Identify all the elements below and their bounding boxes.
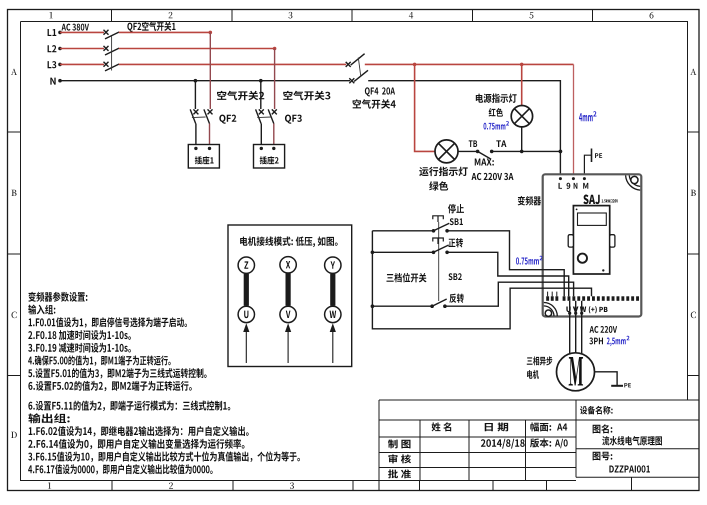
motor terminal wiring box xyxy=(228,225,352,367)
wire L2 to socket branch junction xyxy=(119,48,275,50)
breaker QF4 linkage xyxy=(358,58,361,77)
ground PE motor xyxy=(611,385,623,387)
wire QF3 pole B to socket2 xyxy=(260,124,262,145)
breaker QF2 pole L3 xyxy=(104,62,109,67)
wire forward output to inverter xyxy=(447,252,569,296)
contact SB1 stop xyxy=(432,229,436,233)
wire N drop to QF2 xyxy=(194,81,196,109)
wire inverter V to motor xyxy=(574,312,577,315)
node TB xyxy=(469,140,477,147)
lamp HL1 power indicator (red) xyxy=(511,106,532,127)
inverter terminal strip xyxy=(546,296,549,301)
label power indicator xyxy=(476,94,517,103)
breaker QF4 pole N xyxy=(349,78,354,83)
pushbutton SB1 actuator cap xyxy=(433,216,444,222)
wire N bus xyxy=(60,80,350,82)
wire common rail to inverter COM xyxy=(372,231,591,329)
wire forward left to common rail xyxy=(372,251,433,253)
label QF3 xyxy=(285,115,302,124)
label MAX rating xyxy=(475,158,494,165)
wire lamp HL1 to TA wire xyxy=(521,127,523,151)
breaker QF2 branch linkage xyxy=(192,116,206,119)
wire N after QF4 to inverter xyxy=(368,81,560,175)
socket 1 xyxy=(188,145,219,169)
wire L3 after QF4 to inverter xyxy=(365,63,574,65)
lamp HL2 run indicator feed xyxy=(415,64,435,151)
socket 2 xyxy=(254,145,285,169)
breaker QF4 pole L3 xyxy=(346,62,351,67)
inverter output terminal labels U V W (+) PB xyxy=(566,306,570,312)
wire L1 phase xyxy=(60,31,104,33)
inverter brand SAJ xyxy=(583,195,599,205)
wire QF2 pole B to socket1 xyxy=(195,124,197,145)
inverter input terminals L N PE xyxy=(559,177,562,180)
wire SB1 left to common rail xyxy=(372,230,433,232)
wire L2 drop to QF3 xyxy=(274,49,276,110)
wire L1 drop to QF2 xyxy=(209,32,211,109)
label run indicator xyxy=(419,167,468,177)
value label 4mm2 xyxy=(579,113,593,121)
breaker QF2 branch pole A xyxy=(208,109,213,114)
label red xyxy=(489,108,503,117)
label air switch 3 xyxy=(283,91,330,101)
value label 0.75mm2 xyxy=(484,123,506,130)
wire inverter U to motor xyxy=(568,312,571,315)
breaker QF2 linkage xyxy=(111,37,113,71)
label motor wiring mode xyxy=(240,237,338,248)
wire SB1 output to inverter xyxy=(447,231,564,296)
breaker QF2 main label xyxy=(127,22,175,32)
breaker QF3 linkage xyxy=(257,116,271,119)
node L2 xyxy=(48,45,57,52)
label air switch 2 xyxy=(217,91,264,101)
wire QF2 pole A to socket1 xyxy=(209,124,211,145)
label reverse xyxy=(449,294,463,304)
value label AC 220V 3A xyxy=(472,173,514,180)
wire lamp HL2 to TB contact xyxy=(458,150,478,152)
inverter parameter settings note xyxy=(28,292,87,302)
inverter U1 SAJ body xyxy=(543,174,642,316)
thermostat contact TB-TA xyxy=(478,151,491,159)
pushbutton SB2 forward actuator cap xyxy=(433,238,444,244)
contact SB2 forward xyxy=(432,251,436,255)
ground PE terminal top xyxy=(584,155,591,174)
node L3 xyxy=(48,61,57,68)
label SB1 xyxy=(450,218,463,225)
label air switch 4 xyxy=(353,99,396,109)
wire L3 drop to lamp HL1 xyxy=(521,64,523,105)
contact SB2 reverse xyxy=(430,304,434,308)
breaker QF2 branch pole B xyxy=(193,109,198,114)
wire L2 phase xyxy=(60,48,104,50)
lamp HL2 run indicator (green) xyxy=(435,140,458,163)
inverter keypad panel xyxy=(573,206,609,274)
value label 0.75mm2 control wires xyxy=(516,257,539,264)
breaker QF2 pole L1 xyxy=(104,30,109,35)
label forward xyxy=(449,238,463,248)
wire motor to PE xyxy=(595,372,618,386)
label QF4 20A xyxy=(365,87,395,96)
label three position switch xyxy=(386,273,426,283)
wire reverse left to common rail xyxy=(372,305,432,307)
label stop xyxy=(448,204,464,214)
wire inverter W to motor xyxy=(580,312,583,315)
wire QF3 pole A to socket2 xyxy=(273,124,275,145)
label SB2 xyxy=(448,273,461,280)
label inverter (bian pin qi) xyxy=(518,196,541,206)
wire reverse output to inverter xyxy=(445,282,574,306)
label QF2 xyxy=(219,115,236,124)
breaker QF2 pole L2 xyxy=(104,46,109,51)
value label AC 380V xyxy=(62,24,89,31)
motor winding terminals Z X Y / U V W xyxy=(238,257,254,273)
wire TA to N junction xyxy=(492,150,561,152)
wire L1 to socket branch junction xyxy=(119,31,211,33)
wire N drop to QF3 xyxy=(260,81,262,109)
wire L3 to QF4 xyxy=(119,63,346,65)
value label AC 220V 3PH xyxy=(590,326,618,333)
wire L3 phase xyxy=(60,63,104,65)
motor M1 three-phase asynchronous xyxy=(557,353,595,391)
node L1 xyxy=(48,29,57,36)
breaker QF3 pole A xyxy=(272,109,277,114)
node N xyxy=(50,78,55,85)
node TA xyxy=(496,140,506,147)
junction N vertical with lamp circuit xyxy=(559,150,563,154)
label green xyxy=(429,181,448,191)
breaker QF3 pole B xyxy=(259,109,264,114)
label three-phase async motor xyxy=(527,356,552,365)
switch linkage SB1-SB2 xyxy=(438,222,440,301)
